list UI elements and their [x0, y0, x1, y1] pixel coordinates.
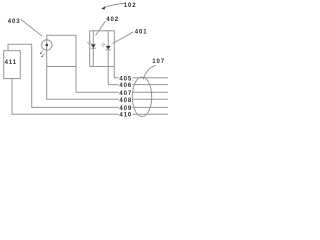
photodiode 402 symbol: [87, 41, 96, 48]
photodiode 401 symbol: [102, 43, 111, 50]
wire B through photodiode 401 down to line 406: [108, 31, 118, 85]
wire left edge down to line 408: [47, 67, 119, 100]
box (photodiode block): [90, 31, 115, 67]
svg-text:401: 401: [135, 30, 148, 36]
signal line 410 right part: [132, 113, 168, 115]
signal line 408 right part: [132, 98, 168, 100]
wire 411 bottom to line 410: [12, 79, 119, 115]
cable bundle ellipse 107: [132, 77, 151, 117]
svg-text:402: 402: [106, 17, 119, 23]
LED 403 center dot: [46, 44, 49, 47]
emission arrow 1 of LED 403: [40, 51, 43, 55]
signal line 406 right part: [132, 84, 168, 86]
box 411: [4, 51, 21, 79]
leader 107: [143, 65, 156, 79]
svg-text:409: 409: [119, 106, 132, 112]
wire right edge extension to line 405: [114, 67, 118, 78]
box (LED 403 block): [47, 35, 76, 66]
LED 403 circle: [42, 40, 52, 50]
svg-text:410: 410: [119, 113, 132, 119]
svg-text:408: 408: [119, 98, 132, 104]
svg-text:102: 102: [124, 3, 137, 9]
svg-text:411: 411: [5, 60, 17, 66]
svg-text:403: 403: [8, 19, 21, 25]
svg-text:407: 407: [119, 91, 132, 97]
svg-text:405: 405: [119, 76, 132, 82]
arrow 102: [105, 3, 125, 7]
leader 403: [21, 20, 42, 37]
leader 401: [113, 32, 134, 44]
wire 411 top to node 409 column: [8, 44, 119, 107]
emission arrow 2 of LED 403: [41, 53, 44, 57]
signal line 405 right part: [132, 77, 168, 79]
svg-text:107: 107: [152, 59, 165, 65]
wire right edge down to line 407: [76, 67, 119, 93]
signal line 409 right part: [132, 106, 168, 108]
leader 402: [96, 21, 106, 36]
svg-text:406: 406: [119, 83, 132, 89]
signal line 407 right part: [132, 91, 168, 93]
wire A through photodiode 402: [92, 31, 94, 67]
